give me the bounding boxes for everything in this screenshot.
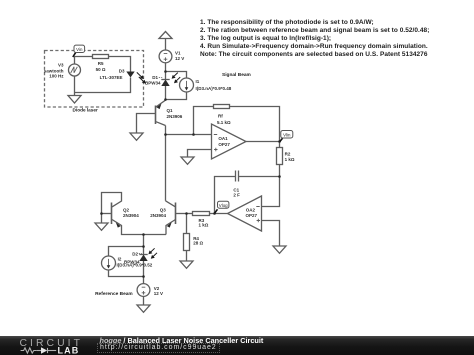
svg-text:2N3904: 2N3904 (150, 213, 166, 218)
svg-text:LAB: LAB (58, 346, 80, 355)
svg-text:R5: R5 (98, 61, 104, 66)
svg-text:Rf: Rf (218, 114, 223, 119)
svg-text:OP27: OP27 (246, 213, 258, 218)
svg-text:2 F: 2 F (233, 192, 240, 197)
svg-text:V3: V3 (58, 63, 64, 68)
svg-text:D1: D1 (152, 75, 158, 80)
svg-text:1 kΩ: 1 kΩ (285, 157, 295, 162)
svg-text:1 kΩ: 1 kΩ (199, 222, 209, 227)
svg-text:Reference Beam: Reference Beam (95, 291, 133, 297)
svg-text:I(D3.nA)*0.9*0.48: I(D3.nA)*0.9*0.48 (196, 86, 232, 91)
svg-text:I1: I1 (196, 79, 200, 84)
svg-text:Vlog: Vlog (219, 203, 228, 208)
svg-text:28 Ω: 28 Ω (193, 241, 203, 246)
svg-text:Q2: Q2 (123, 208, 130, 213)
svg-text:Diode laser: Diode laser (73, 107, 98, 112)
svg-text:BPW34: BPW34 (145, 80, 161, 85)
svg-text:R2: R2 (285, 152, 291, 157)
svg-text:2N3904: 2N3904 (123, 213, 139, 218)
svg-text:50 Ω: 50 Ω (96, 67, 106, 72)
svg-text:Signal Beam: Signal Beam (222, 72, 251, 78)
svg-text:Vlin: Vlin (283, 132, 291, 137)
svg-text:I2: I2 (118, 256, 122, 261)
svg-text:OA1: OA1 (218, 136, 228, 141)
svg-text:LTL-307EE: LTL-307EE (100, 75, 123, 80)
svg-text:D2: D2 (132, 251, 138, 256)
svg-text:Q3: Q3 (160, 208, 167, 213)
svg-text:100 Hz: 100 Hz (49, 73, 64, 78)
svg-text:OA2: OA2 (246, 208, 256, 213)
svg-text:Vin: Vin (76, 47, 83, 52)
svg-text:OP27: OP27 (218, 142, 230, 147)
svg-text:5.1 kΩ: 5.1 kΩ (217, 120, 231, 125)
svg-text:12 V: 12 V (154, 291, 163, 296)
svg-text:I(D3.nA)*0.9*0.52: I(D3.nA)*0.9*0.52 (117, 262, 153, 267)
svg-text:Q1: Q1 (167, 108, 174, 113)
svg-text:2N3906: 2N3906 (167, 114, 183, 119)
svg-text:D3: D3 (119, 69, 125, 74)
svg-text:12 V: 12 V (175, 56, 184, 61)
